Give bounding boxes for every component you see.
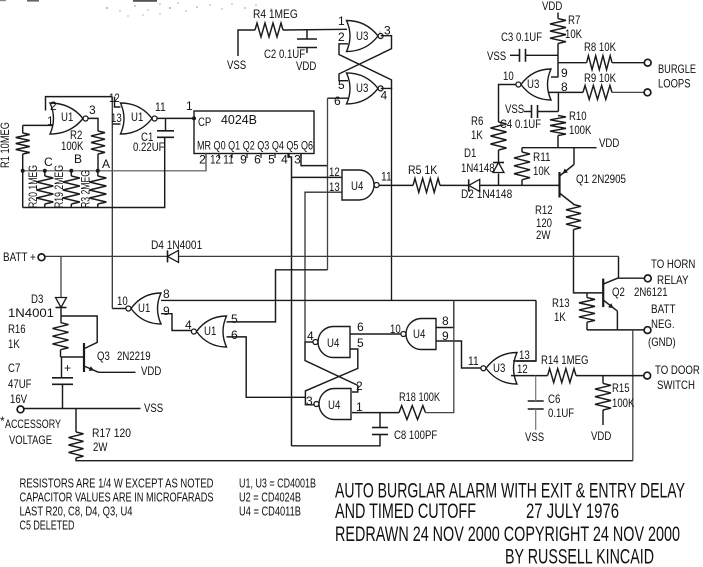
svg-text:R4 1MEG: R4 1MEG xyxy=(253,7,298,21)
node row wire A-B-C to MR xyxy=(23,154,206,171)
wire R8 to terminal xyxy=(612,62,644,64)
wire VSS to C3 xyxy=(510,54,520,56)
svg-text:U2 = CD4024B: U2 = CD4024B xyxy=(239,490,301,505)
svg-text:BATT +: BATT + xyxy=(3,250,36,264)
resistor R7 vertical xyxy=(550,19,566,44)
svg-text:10: 10 xyxy=(117,294,128,308)
wire BATT+ to D3 xyxy=(60,256,62,297)
wire R2 bottom to node A xyxy=(97,154,99,171)
wire below R1 to bottom rail xyxy=(22,171,24,208)
svg-text:U4: U4 xyxy=(413,327,426,341)
resistor R4 horizontal xyxy=(255,23,283,37)
svg-text:2: 2 xyxy=(50,99,57,113)
svg-text:U1, U3 = CD4001B: U1, U3 = CD4001B xyxy=(239,476,316,491)
wire U3b in6 from x327 xyxy=(328,97,350,99)
wire R12 bottom to Q2 base xyxy=(574,230,603,293)
diode D2 1N4148 xyxy=(468,179,470,191)
terminal burgle loop bottom xyxy=(644,89,651,96)
wire R18 right riser xyxy=(426,300,454,412)
wire VDD rail xyxy=(522,147,597,149)
op-amp U1 gate C (NOR pins 10,8,9) pointing left xyxy=(131,293,161,324)
wire pin8 input xyxy=(549,92,558,111)
wire D2 to Q1 base xyxy=(480,184,560,186)
capacitor C1 xyxy=(157,130,174,132)
wire pin1 to R18 xyxy=(352,412,399,414)
wire R3 stubs xyxy=(97,171,99,176)
op-amp U3 gate B (NOR pins 5,6,4) xyxy=(347,73,379,104)
svg-text:3: 3 xyxy=(306,394,313,408)
svg-text:U4: U4 xyxy=(351,179,364,193)
terminal accessory voltage xyxy=(17,406,24,413)
op-amp U1 gate D (NOR pins 4,5,6) pointing left xyxy=(197,316,227,347)
svg-text:U1: U1 xyxy=(61,110,74,124)
wire Q5 pin4 long vertical net xyxy=(289,154,292,447)
svg-text:R1 10MEG: R1 10MEG xyxy=(0,122,12,168)
transistor Q2 2N6121 bar xyxy=(602,279,604,308)
resistor R11 vertical xyxy=(514,152,530,180)
svg-text:2W: 2W xyxy=(536,228,551,242)
wire R16 bottom to base wire xyxy=(60,350,62,357)
svg-text:12: 12 xyxy=(329,165,340,179)
wire BATT+ horizontal line xyxy=(45,255,618,257)
svg-text:CP: CP xyxy=(198,115,211,129)
svg-text:C6: C6 xyxy=(548,392,561,406)
wire R1 bottom to node row xyxy=(22,154,24,171)
Q1 emitter xyxy=(560,165,575,177)
svg-text:11: 11 xyxy=(223,153,234,167)
wire pin8 riser xyxy=(436,300,454,327)
svg-text:R9 10K: R9 10K xyxy=(584,71,616,85)
svg-text:100K: 100K xyxy=(612,396,634,410)
svg-text:4: 4 xyxy=(307,329,314,343)
wire out10 to A6 xyxy=(350,333,401,335)
svg-text:AND TIMED CUTOFF: AND TIMED CUTOFF xyxy=(335,500,476,523)
op-amp U4 gate B (NAND pins 3,2,1) pointing left xyxy=(319,389,351,420)
IC U2 4024B box xyxy=(194,111,314,154)
wire Q3 base wire xyxy=(61,356,85,358)
svg-text:100K: 100K xyxy=(569,123,591,137)
resistor R13 vertical xyxy=(579,298,595,323)
svg-text:2N2219: 2N2219 xyxy=(117,349,151,363)
wire U1a output to R2 xyxy=(88,118,98,131)
svg-text:A: A xyxy=(102,157,110,171)
wire R4 left to VSS xyxy=(238,30,255,56)
svg-text:2N6121: 2N6121 xyxy=(634,285,668,299)
svg-text:R12: R12 xyxy=(535,203,553,217)
svg-text:1: 1 xyxy=(186,99,193,113)
svg-text:5: 5 xyxy=(231,312,238,326)
wire C8 bottom left xyxy=(292,435,381,446)
wire junction to Q3 collector xyxy=(61,316,97,348)
wire C2 bottom stub xyxy=(306,48,308,54)
wire Q6 pin3 to vertical xyxy=(301,154,328,166)
wire U1c in9 to U1d out4 xyxy=(161,314,192,331)
wire emitter rail to BATT NEG xyxy=(587,329,644,331)
svg-text:27 JULY 1976: 27 JULY 1976 xyxy=(526,500,619,523)
svg-text:NEG.: NEG. xyxy=(651,317,675,331)
Q2 emitter xyxy=(603,300,617,311)
svg-text:16V: 16V xyxy=(10,392,27,406)
wire C8 top stub xyxy=(379,413,381,428)
wire R15 bottom stub xyxy=(602,410,604,425)
svg-text:1K: 1K xyxy=(554,310,566,324)
svg-text:B: B xyxy=(74,152,82,166)
svg-text:R15: R15 xyxy=(612,381,630,395)
svg-text:1K: 1K xyxy=(8,337,20,351)
svg-text:13: 13 xyxy=(519,348,530,362)
svg-text:Q1 2N2905: Q1 2N2905 xyxy=(576,172,626,186)
wire A4 cross diagonal to B2 xyxy=(305,342,358,392)
svg-text:1: 1 xyxy=(338,14,345,28)
wire U4a pin13 input xyxy=(305,192,342,342)
svg-text:C8 100PF: C8 100PF xyxy=(394,428,437,442)
wire VSS rail xyxy=(24,408,141,410)
wire VSS to C4 left xyxy=(524,111,532,113)
wire out4 left and up xyxy=(305,341,313,343)
diode D1 1N4148 vertical xyxy=(493,162,504,164)
wire R7 bottom junction xyxy=(557,44,559,78)
pin stubs under 4024 xyxy=(205,154,207,159)
wire in13 xyxy=(513,360,536,362)
svg-text:VSS: VSS xyxy=(505,102,524,116)
svg-text:12: 12 xyxy=(210,153,221,167)
diode D4 1N4001 xyxy=(167,250,169,262)
svg-text:R11: R11 xyxy=(533,150,551,164)
svg-text:D4 1N4001: D4 1N4001 xyxy=(151,238,202,252)
svg-text:(GND): (GND) xyxy=(648,335,676,349)
svg-text:R16: R16 xyxy=(8,322,26,336)
wire C6 bottom stub xyxy=(535,409,537,430)
wire U1b pin12 stub xyxy=(115,97,121,107)
wire R9 to terminal xyxy=(612,91,644,93)
wire R9 from junction xyxy=(558,91,583,93)
wire U3a in2 to cross xyxy=(339,44,392,89)
svg-text:2: 2 xyxy=(356,379,363,393)
wire long vertical from oscillator box to U1 pin10 output xyxy=(111,97,113,309)
svg-text:11: 11 xyxy=(468,354,479,368)
op-amp U4 gate A (NAND pins 4,6,5) pointing left xyxy=(318,327,350,358)
resistor R15 vertical xyxy=(595,383,611,410)
svg-text:MR Q0 Q1 Q2 Q3 Q4 Q5 Q6: MR Q0 Q1 Q2 Q3 Q4 Q5 Q6 xyxy=(197,141,313,153)
svg-text:8: 8 xyxy=(163,287,170,301)
svg-text:U3: U3 xyxy=(527,77,540,91)
resistor R10 vertical xyxy=(550,116,566,136)
node C xyxy=(43,169,47,173)
svg-text:13: 13 xyxy=(329,180,340,194)
svg-text:R13: R13 xyxy=(552,296,570,310)
resistor R20 vertical xyxy=(36,176,53,204)
wire pin9 input xyxy=(551,76,558,78)
svg-text:4: 4 xyxy=(281,153,288,167)
wire U1d in6 path xyxy=(227,337,306,397)
svg-text:12: 12 xyxy=(109,91,120,105)
svg-text:0.22UF: 0.22UF xyxy=(133,140,165,154)
wire R15 top stub xyxy=(602,376,604,384)
svg-text:C3 0.1UF: C3 0.1UF xyxy=(501,30,542,44)
wire MR pin2 riser xyxy=(205,154,207,171)
svg-text:4: 4 xyxy=(381,89,388,103)
svg-text:R10: R10 xyxy=(569,109,587,123)
capacitor C6 xyxy=(528,400,544,402)
wire R5 to D2 xyxy=(440,184,469,186)
wire oscillator bottom rail xyxy=(23,138,165,208)
svg-text:R5 1K: R5 1K xyxy=(408,163,437,177)
svg-text:R18 100K: R18 100K xyxy=(399,390,440,404)
wire C6 top stub xyxy=(535,376,537,401)
terminal to horn relay xyxy=(644,275,651,282)
svg-text:9: 9 xyxy=(163,304,170,318)
wire U1b pin13 stub xyxy=(112,123,120,125)
wire D1 stubs xyxy=(498,150,500,163)
svg-text:5: 5 xyxy=(357,336,364,350)
wire U1a input1 xyxy=(23,124,53,126)
op-amp U4 gate (NAND pins 12,13,11) xyxy=(342,170,374,200)
wire vertical x327 Q6 net xyxy=(327,98,329,270)
svg-text:VDD: VDD xyxy=(141,364,162,378)
svg-text:VSS: VSS xyxy=(227,58,246,72)
svg-text:Q2: Q2 xyxy=(612,285,625,299)
resistor R5 horizontal xyxy=(413,178,440,192)
svg-text:8: 8 xyxy=(442,314,449,328)
transistor Q3 2N2219 bar xyxy=(83,343,85,372)
transistor Q1 2N2905 bar xyxy=(558,172,560,198)
resistor R6 vertical xyxy=(491,122,507,150)
svg-text:U3: U3 xyxy=(356,29,369,43)
svg-text:11: 11 xyxy=(155,100,166,114)
svg-text:R17 120: R17 120 xyxy=(92,426,131,440)
svg-text:3: 3 xyxy=(294,153,301,167)
resistor R18 horizontal xyxy=(399,406,426,420)
svg-text:R20 1MEG: R20 1MEG xyxy=(28,165,40,208)
terminal burgle loop top xyxy=(644,59,651,66)
wire feedback top rail of oscillator xyxy=(46,97,113,111)
svg-text:SWITCH: SWITCH xyxy=(657,378,695,392)
svg-text:VDD: VDD xyxy=(296,59,317,73)
node CP pin 1 xyxy=(192,116,196,120)
svg-text:13: 13 xyxy=(111,111,122,125)
svg-text:11: 11 xyxy=(381,170,392,184)
resistor R12 vertical xyxy=(566,205,581,230)
svg-text:VDD: VDD xyxy=(542,0,563,13)
svg-text:U1: U1 xyxy=(131,110,144,124)
node A xyxy=(96,169,100,173)
node B xyxy=(69,169,73,173)
op-amp U4 gate C (NAND pins 10,8,9) pointing left xyxy=(406,319,436,350)
svg-text:47UF: 47UF xyxy=(8,377,32,391)
svg-text:2: 2 xyxy=(199,153,206,167)
capacitor C8 xyxy=(372,427,388,429)
svg-text:LAST R20, C8, D4, Q3, U4: LAST R20, C8, D4, Q3, U4 xyxy=(20,504,133,519)
wire R17 top stub xyxy=(75,409,77,433)
diode D3 1N4001 vertical xyxy=(56,298,67,308)
wire R10 bottom to VDD rail xyxy=(557,136,559,148)
svg-text:BURGLE: BURGLE xyxy=(658,62,696,76)
svg-text:4: 4 xyxy=(185,318,192,332)
wire BATT NEG vertical down xyxy=(632,330,634,461)
capacitor C4 xyxy=(531,105,533,118)
op-amp U3 gate A (NOR pins 1,2,3) xyxy=(347,21,379,52)
capacitor C3 xyxy=(519,49,521,62)
svg-text:RESISTORS ARE 1/4 W EXCEPT AS: RESISTORS ARE 1/4 W EXCEPT AS NOTED xyxy=(20,476,214,491)
wire C3 to junction xyxy=(526,54,559,56)
wire R11 stubs xyxy=(521,148,523,152)
op-amp U3 gate C (NOR pins 10,9,8) pointing left xyxy=(521,69,551,100)
svg-text:REDRAWN 24 NOV 2000 COPYRIGHT: REDRAWN 24 NOV 2000 COPYRIGHT 24 NOV 200… xyxy=(335,523,680,546)
svg-text:BATT: BATT xyxy=(651,302,676,316)
svg-text:D2 1N4148: D2 1N4148 xyxy=(461,187,512,201)
resistor R19 vertical xyxy=(63,176,80,204)
svg-text:D3: D3 xyxy=(31,292,44,306)
svg-text:VOLTAGE: VOLTAGE xyxy=(9,433,52,447)
wire U1c output to vertical xyxy=(112,308,126,310)
svg-text:VSS: VSS xyxy=(144,401,163,415)
svg-text:TO HORN: TO HORN xyxy=(651,257,695,271)
svg-text:6: 6 xyxy=(231,328,238,342)
svg-text:TO DOOR: TO DOOR xyxy=(655,363,700,377)
svg-text:6: 6 xyxy=(357,320,364,334)
svg-text:6: 6 xyxy=(334,94,341,108)
svg-text:VDD: VDD xyxy=(591,429,612,443)
op-amp U1 gate B (NOR pins 12,13,11) xyxy=(121,103,153,134)
resistor R14 horizontal xyxy=(548,369,576,383)
svg-text:BY RUSSELL KINCAID: BY RUSSELL KINCAID xyxy=(505,546,654,567)
resistor R16 vertical xyxy=(53,323,69,350)
capacitor C7 polarized xyxy=(52,377,73,379)
svg-text:VDD: VDD xyxy=(599,136,620,150)
wire U3a out3 to cross to in5 xyxy=(339,36,392,81)
wire U1c in8 net long xyxy=(161,299,536,301)
svg-text:R6: R6 xyxy=(471,114,484,128)
svg-text:VSS: VSS xyxy=(487,49,506,63)
wire out12 R14 line xyxy=(511,375,548,377)
wire U4a pin12 input xyxy=(292,176,343,178)
wire U1b output to 4024 CP xyxy=(157,117,194,119)
svg-text:0.1UF: 0.1UF xyxy=(548,406,574,420)
svg-text:C4 0.1UF: C4 0.1UF xyxy=(500,117,541,131)
svg-text:Q3: Q3 xyxy=(97,349,110,363)
svg-text:U1: U1 xyxy=(138,301,151,315)
wire R4 right to U3 pin1 xyxy=(283,28,347,31)
Q3 emitter xyxy=(84,366,99,372)
wire R13 stubs xyxy=(586,293,588,298)
wire U1d in5 path xyxy=(227,270,328,322)
svg-text:ACCESSORY: ACCESSORY xyxy=(5,417,61,431)
svg-text:U4 = CD4011B: U4 = CD4011B xyxy=(239,504,301,519)
svg-text:10K: 10K xyxy=(533,164,550,178)
resistor R8 horizontal xyxy=(587,56,612,70)
svg-text:9: 9 xyxy=(240,153,247,167)
wire bottom ground rail xyxy=(76,458,633,461)
svg-text:1: 1 xyxy=(47,114,54,128)
svg-text:9: 9 xyxy=(561,66,568,80)
svg-text:U1: U1 xyxy=(204,324,217,338)
resistor R3 vertical xyxy=(89,176,106,204)
wire net to U3 pin13 xyxy=(516,300,536,361)
resistor R1 vertical xyxy=(16,133,30,154)
svg-text:2W: 2W xyxy=(93,440,108,454)
svg-text:U3: U3 xyxy=(356,81,369,95)
svg-text:3: 3 xyxy=(89,103,96,117)
op-amp U3 gate D (NOR pins 11,13,12) pointing left xyxy=(486,353,517,385)
svg-text:1N4001: 1N4001 xyxy=(8,308,54,320)
wire C2 top stub xyxy=(306,30,308,39)
svg-text:D1: D1 xyxy=(464,146,477,160)
svg-text:1N4148: 1N4148 xyxy=(461,161,495,175)
svg-text:C: C xyxy=(44,155,53,169)
svg-text:R14 1MEG: R14 1MEG xyxy=(541,353,589,367)
svg-text:6: 6 xyxy=(254,153,261,167)
wire C1 top stub xyxy=(165,118,167,130)
svg-text:+: + xyxy=(64,361,71,375)
node R1 bottom xyxy=(21,169,25,173)
Q2 collector xyxy=(603,278,618,284)
svg-text:U4: U4 xyxy=(327,336,340,350)
svg-text:12: 12 xyxy=(517,362,528,376)
svg-text:5: 5 xyxy=(268,153,275,167)
svg-text:100K: 100K xyxy=(61,139,83,153)
resistor R9 horizontal xyxy=(583,85,612,99)
wire R1 top stub xyxy=(22,125,24,133)
svg-text:U4: U4 xyxy=(328,398,341,412)
Q1 collector xyxy=(560,193,575,205)
wire junction to R8 xyxy=(558,62,587,64)
wire R14 to door switch xyxy=(576,375,644,377)
svg-text:C7: C7 xyxy=(8,361,21,375)
svg-text:C5 DELETED: C5 DELETED xyxy=(20,518,75,533)
svg-text:R8 10K: R8 10K xyxy=(584,40,616,54)
svg-text:R7: R7 xyxy=(568,13,581,27)
wire D3 to R16 junction xyxy=(60,309,62,323)
wire base to C7 xyxy=(61,357,63,378)
svg-text:R3 2MEG: R3 2MEG xyxy=(81,170,93,208)
wire C7 bottom to VSS rail xyxy=(62,384,64,408)
svg-text:LOOPS: LOOPS xyxy=(658,77,691,91)
wire U4a out to R5 xyxy=(380,184,414,186)
wire U3c output 10 down to R6 xyxy=(499,85,516,123)
svg-text:2: 2 xyxy=(338,30,345,44)
wire D4 line corner to Q2 collector xyxy=(618,256,620,277)
wire pin9 to U3 in11 xyxy=(436,341,481,368)
svg-text:1K: 1K xyxy=(471,128,483,142)
resistor R17 vertical xyxy=(69,432,84,458)
wire VDD to R7 xyxy=(557,13,559,19)
wire C4 right to junction xyxy=(538,111,559,113)
svg-text:10: 10 xyxy=(503,69,514,83)
wire A5 cross diagonal xyxy=(305,349,357,405)
wire U3b out4 long vertical xyxy=(381,88,392,300)
wire R20 stubs xyxy=(44,171,46,176)
op-amp U1 gate A (NOR pins 2,1,3) xyxy=(50,103,83,134)
resistor R2 vertical xyxy=(91,131,105,154)
svg-text:10K: 10K xyxy=(565,27,582,41)
capacitor C2 xyxy=(297,38,317,40)
svg-text:4024B: 4024B xyxy=(221,113,257,127)
wire R19 stubs xyxy=(70,171,72,176)
svg-text:VSS: VSS xyxy=(525,430,544,444)
svg-text:U3: U3 xyxy=(493,361,506,375)
svg-text:CAPACITOR VALUES ARE IN MICROF: CAPACITOR VALUES ARE IN MICROFARADS xyxy=(20,490,214,505)
terminal to door switch xyxy=(644,372,651,379)
svg-text:R19 2MEG: R19 2MEG xyxy=(54,165,66,208)
terminal BATT NEG xyxy=(644,327,651,334)
terminal BATT+ xyxy=(38,254,45,261)
